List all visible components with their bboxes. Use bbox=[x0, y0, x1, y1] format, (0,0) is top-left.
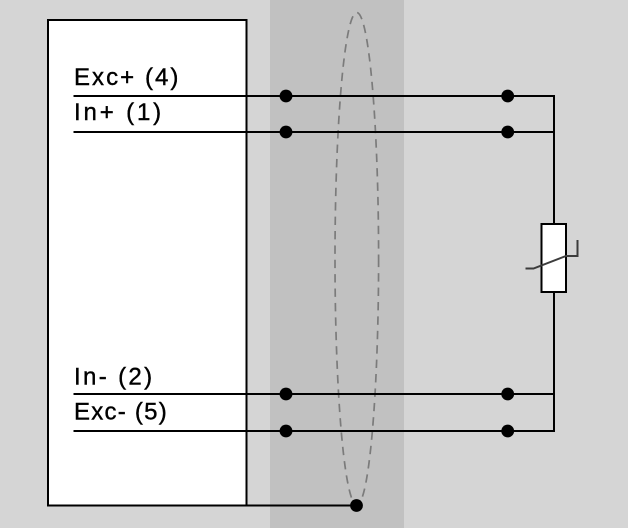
junction dot on Exc- wire left bbox=[280, 425, 293, 438]
svg-text:In- (2): In- (2) bbox=[74, 364, 154, 391]
junction dot on In- wire right bbox=[501, 388, 514, 401]
junction dot on In- wire left bbox=[280, 388, 293, 401]
junction dot on Exc+ wire left bbox=[280, 90, 293, 103]
wire Exc- (5) bbox=[74, 430, 556, 432]
cable shield (dashed ellipse) bbox=[335, 12, 379, 505]
wire vertical bus upper (Exc+/In+ to RT top) bbox=[553, 95, 555, 224]
junction dot on In+ wire left bbox=[280, 126, 293, 139]
cable region band bbox=[270, 0, 404, 528]
wire shield drain (module bottom to shield node) bbox=[246, 505, 357, 507]
svg-text:In+ (1): In+ (1) bbox=[74, 99, 164, 126]
junction dot on Exc- wire right bbox=[501, 425, 514, 438]
wire In- (2) bbox=[74, 393, 556, 395]
module body (terminal block) bbox=[48, 20, 247, 506]
junction dot on Exc+ wire right bbox=[501, 90, 514, 103]
svg-text:Exc+ (4): Exc+ (4) bbox=[74, 64, 180, 91]
thermistor RT variability stroke bbox=[526, 240, 578, 269]
wire In+ (1) bbox=[74, 131, 556, 133]
junction dot on In+ wire right bbox=[501, 126, 514, 139]
svg-text:Exc- (5): Exc- (5) bbox=[74, 399, 168, 426]
junction dot shield drain node bbox=[350, 499, 363, 512]
wire vertical bus lower (RT bottom to In-/Exc-) bbox=[553, 292, 555, 432]
wire Exc+ (4) bbox=[74, 95, 556, 97]
thermistor RT body bbox=[542, 224, 567, 292]
